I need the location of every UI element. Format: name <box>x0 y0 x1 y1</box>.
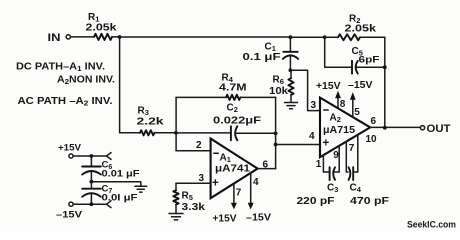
svg-text:4: 4 <box>309 131 315 142</box>
node +15V terminal (C6) <box>69 154 73 158</box>
op-amp A1 <box>211 139 258 199</box>
svg-text:1: 1 <box>316 159 322 170</box>
wire feedback left vertical <box>175 97 177 150</box>
node A2 pin4 junction <box>274 143 278 147</box>
svg-text:470 pF: 470 pF <box>350 195 390 207</box>
svg-text:4: 4 <box>253 177 259 188</box>
svg-text:4.7M: 4.7M <box>219 83 247 94</box>
svg-text:3: 3 <box>311 100 317 111</box>
resistor R4 <box>226 95 240 100</box>
svg-text:–15V: –15V <box>56 210 83 221</box>
node C6 top junction <box>90 154 94 158</box>
svg-text:0.01 μF: 0.01 μF <box>102 169 140 180</box>
wire A1 output to feedback corner <box>258 168 276 170</box>
wire mid to ground <box>91 182 140 186</box>
capacitor C4 with pins 7,10 <box>346 134 389 207</box>
svg-text:OUT: OUT <box>427 123 451 135</box>
node C1 top junction <box>289 35 293 39</box>
svg-text:2.05k: 2.05k <box>345 24 377 35</box>
node IN terminal <box>66 35 70 39</box>
svg-text:2.05k: 2.05k <box>86 23 118 34</box>
svg-text:+15V: +15V <box>58 143 82 154</box>
wire IN to R1 <box>71 36 94 38</box>
svg-text:DC PATH–A1 INV.: DC PATH–A1 INV. <box>16 62 105 74</box>
capacitor C7 <box>82 182 138 205</box>
svg-text:C3: C3 <box>327 183 338 195</box>
wire pin3 row <box>176 182 211 184</box>
node C1/R6 junction <box>289 68 293 72</box>
svg-text:R5: R5 <box>182 191 193 203</box>
svg-text:0.1 μF: 0.1 μF <box>243 52 281 63</box>
pin5 A2 supply <box>348 80 373 118</box>
pin8 A2 supply <box>316 81 346 110</box>
node B junction <box>174 131 178 135</box>
svg-text:A2NON INV.: A2NON INV. <box>57 75 115 87</box>
wire A2 output <box>370 126 420 128</box>
svg-text:AC PATH –A2 INV.: AC PATH –A2 INV. <box>18 96 113 108</box>
wire R3 to node B <box>154 132 176 134</box>
svg-text:3.3k: 3.3k <box>182 202 206 213</box>
node C7 bottom junction <box>90 202 94 206</box>
svg-text:6: 6 <box>263 159 269 170</box>
resistor R3 <box>140 130 154 135</box>
wire to R2 <box>325 36 338 38</box>
wire top rail <box>120 36 291 38</box>
svg-text:2.2k: 2.2k <box>137 117 165 128</box>
ground C6/C7 <box>135 186 147 192</box>
svg-text:+: + <box>212 178 219 190</box>
wire R4 row right <box>240 96 275 98</box>
svg-text:A2: A2 <box>330 113 341 125</box>
capacitor C2 <box>213 103 261 141</box>
svg-text:A1: A1 <box>220 152 231 164</box>
op-amp A2 <box>320 98 370 158</box>
node C2/R4 right junction <box>274 132 278 136</box>
resistor R2 <box>338 34 360 40</box>
node -15V terminal (C7) <box>69 202 73 206</box>
capacitor C6 <box>82 156 140 182</box>
svg-text:0.0I μF: 0.0I μF <box>102 193 138 204</box>
wire R2 to right rail <box>360 36 385 38</box>
svg-text:6: 6 <box>371 116 377 127</box>
node output junction <box>383 126 387 130</box>
wire right rail vertical <box>384 37 386 128</box>
svg-text:R6: R6 <box>273 75 284 87</box>
svg-text:+15V: +15V <box>213 214 237 225</box>
svg-text:–15V: –15V <box>246 213 271 224</box>
svg-text:2: 2 <box>196 140 202 151</box>
svg-text:0.022μF: 0.022μF <box>213 116 261 127</box>
wire +15V rail <box>73 155 107 157</box>
wire C2 row left <box>176 132 231 134</box>
svg-text:7: 7 <box>236 187 242 198</box>
capacitor C1 <box>243 37 299 70</box>
svg-text:10: 10 <box>366 134 378 145</box>
wire R1 to node A <box>112 36 120 38</box>
svg-text:C4: C4 <box>350 183 362 195</box>
svg-text:9: 9 <box>333 150 339 161</box>
svg-text:5: 5 <box>354 107 360 118</box>
node OUT terminal <box>420 126 424 130</box>
wire A2 pin4 row <box>276 144 320 146</box>
wire to R2 node <box>290 36 324 38</box>
node C5 right junction <box>383 65 387 69</box>
wire pin2 row <box>176 150 211 152</box>
svg-text:10k: 10k <box>269 86 288 97</box>
svg-text:SeekIC.com: SeekIC.com <box>407 220 456 231</box>
svg-text:R3: R3 <box>138 106 149 118</box>
ground R6 <box>285 103 298 109</box>
resistor R1 <box>94 34 112 40</box>
svg-text:7: 7 <box>349 143 355 154</box>
wire to A2 pin3 <box>290 70 320 110</box>
capacitor C3 with pins 1,9 <box>297 146 340 207</box>
wire break mark top <box>107 153 112 160</box>
svg-text:–15V: –15V <box>348 80 373 91</box>
node A junction <box>118 35 122 39</box>
capacitor C5 branch <box>325 37 385 73</box>
pin4 A1 supply <box>246 173 271 223</box>
node C6/C7 mid junction <box>90 180 94 184</box>
node R2/C5 left junction <box>323 35 327 39</box>
wire feedback right vertical <box>275 97 277 168</box>
wire node A down <box>120 37 140 133</box>
wire -15V rail <box>73 203 107 205</box>
svg-text:3: 3 <box>199 173 205 184</box>
ground R5 <box>169 214 183 220</box>
wire break mark bottom <box>107 201 112 208</box>
svg-text:+: + <box>323 138 330 150</box>
wire R4 row left <box>176 96 226 98</box>
svg-text:μA715: μA715 <box>323 125 355 136</box>
resistor R5 <box>173 183 205 213</box>
wire C2 row right <box>236 132 275 134</box>
resistor R6 <box>269 70 294 102</box>
svg-text:C2: C2 <box>227 103 238 115</box>
svg-text:IN: IN <box>48 32 61 44</box>
svg-text:+15V: +15V <box>316 81 341 92</box>
svg-text:6pF: 6pF <box>359 55 381 65</box>
svg-text:8: 8 <box>340 99 346 110</box>
pin7 A1 supply <box>213 184 242 225</box>
svg-text:μA741: μA741 <box>215 164 251 175</box>
svg-text:220 pF: 220 pF <box>297 195 336 207</box>
